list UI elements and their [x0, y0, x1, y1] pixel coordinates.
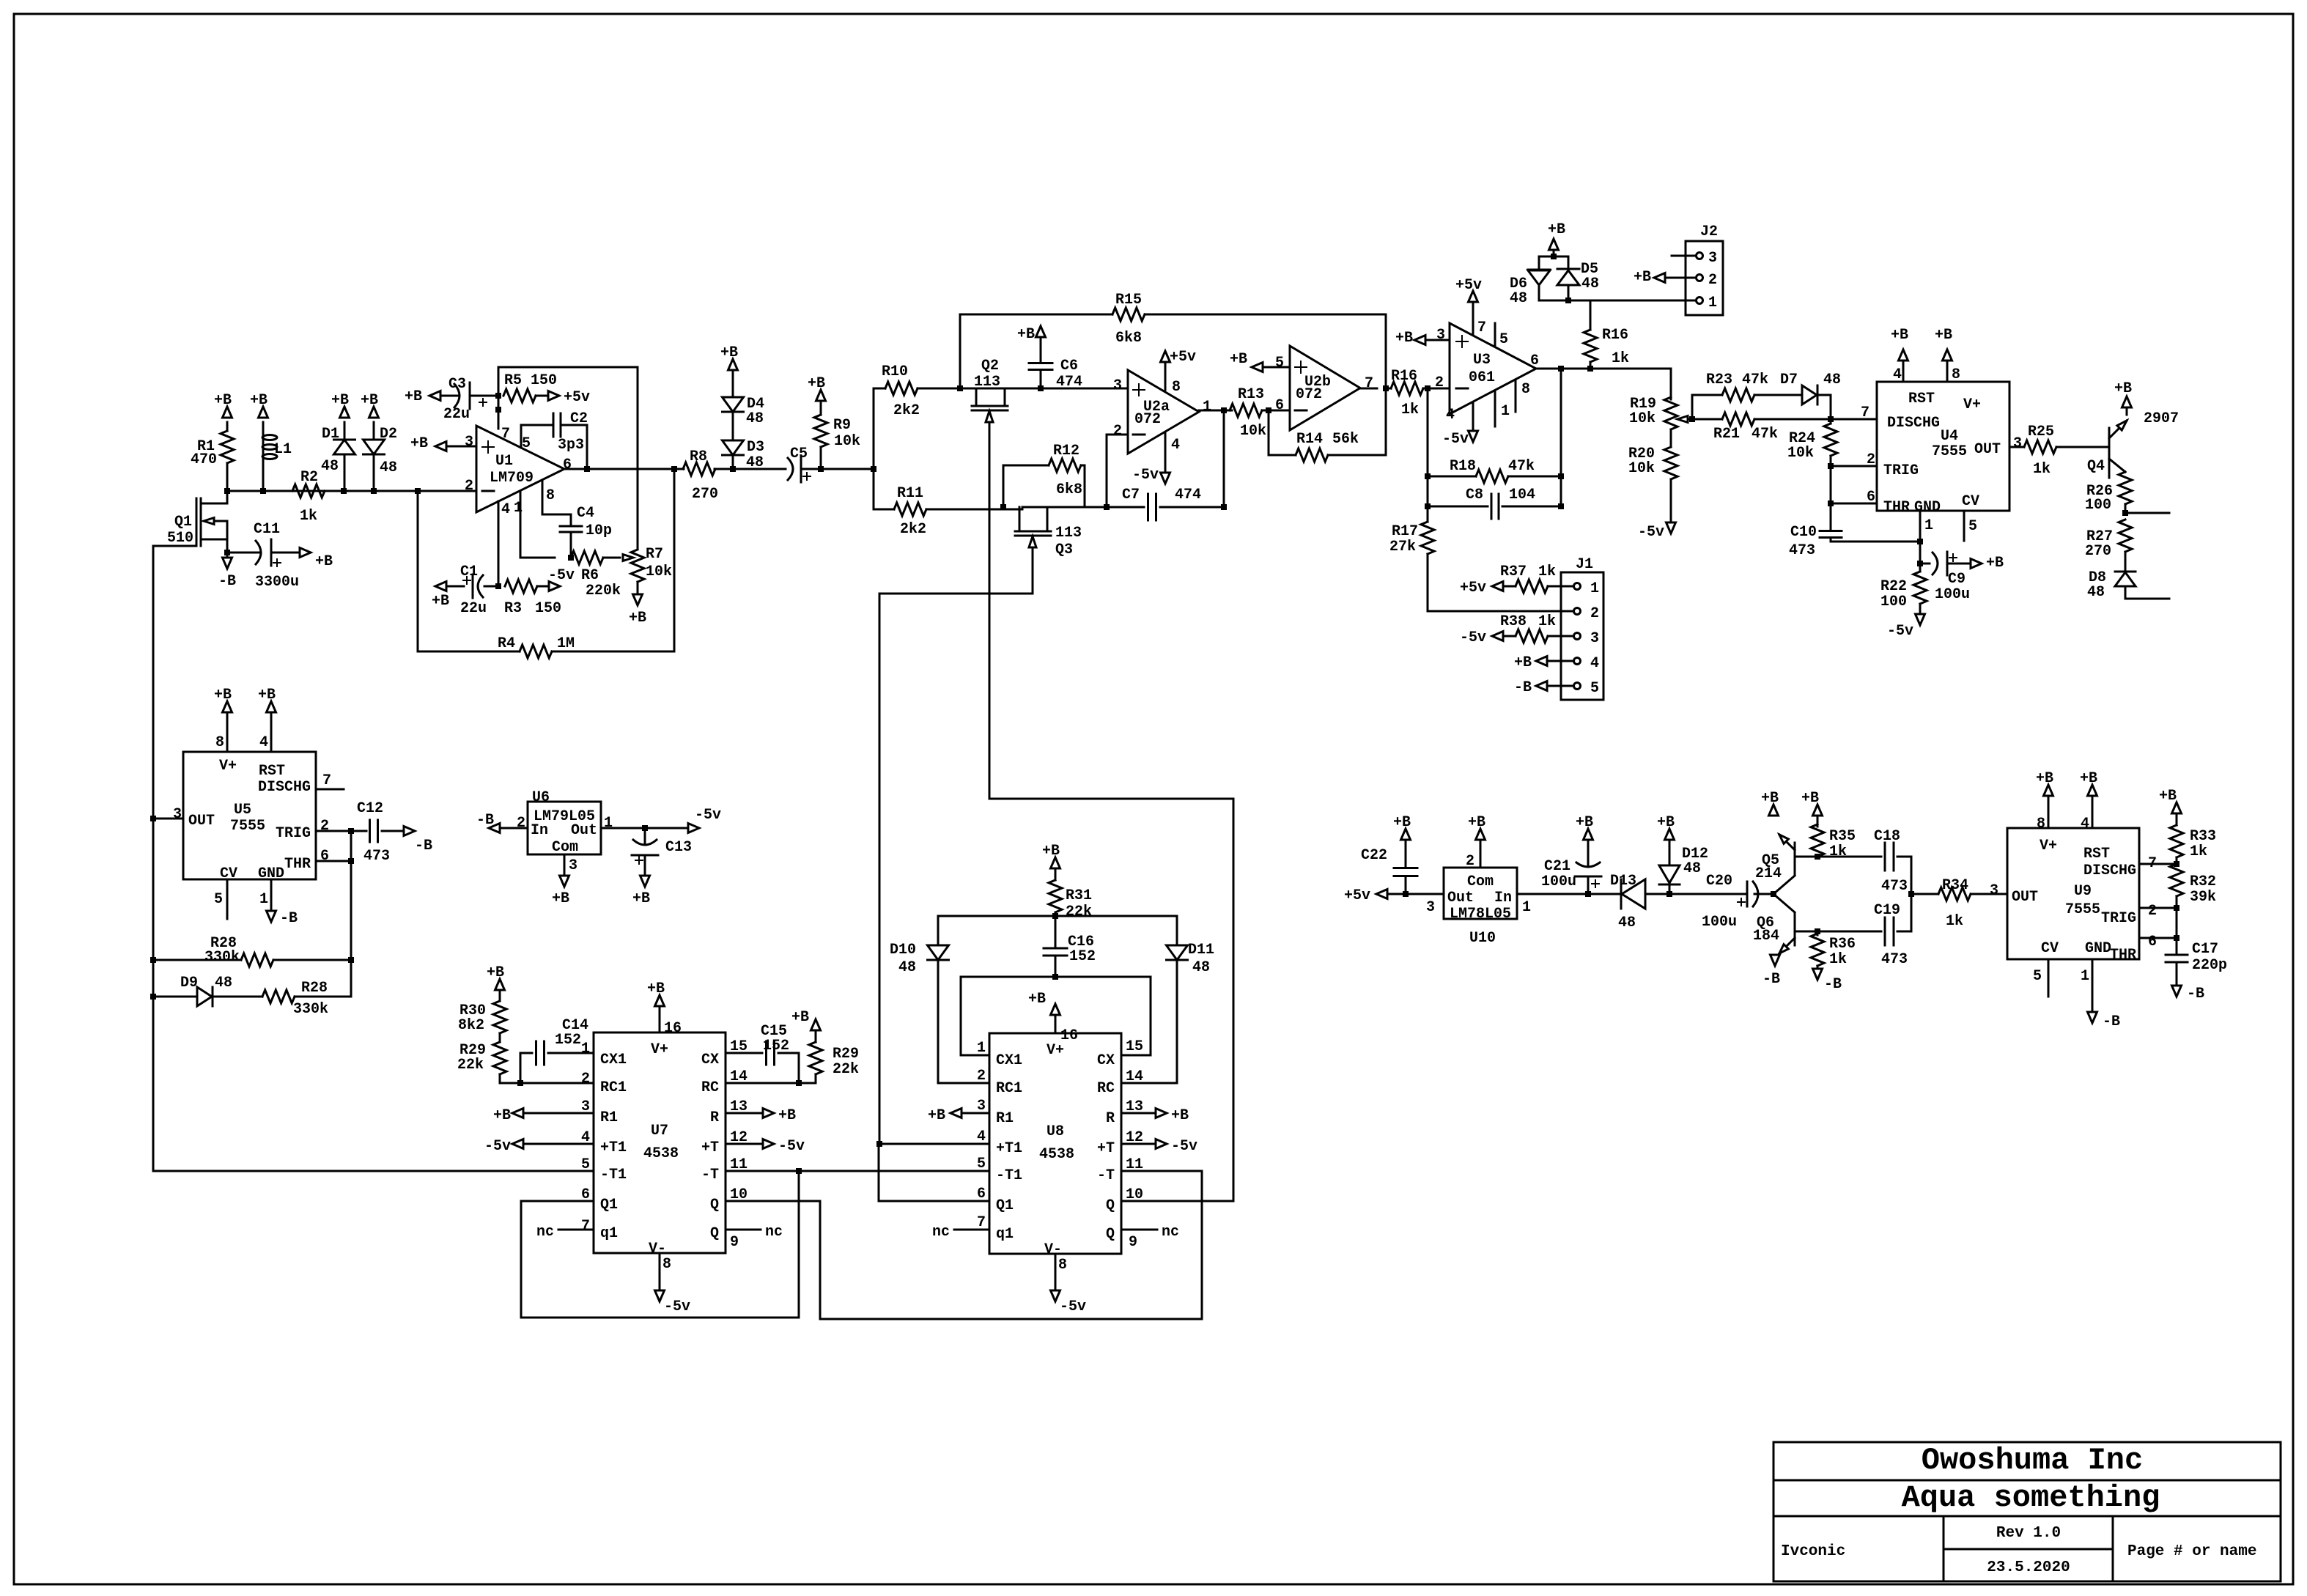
wire U9 pin2 TRIG [2139, 903, 2177, 920]
power +B U8 pin16 [1028, 991, 1078, 1044]
svg-text:474: 474 [1175, 487, 1201, 503]
wire Q3 route to U8 pin4 [879, 594, 1033, 1144]
IC U8 4538 [989, 1033, 1121, 1258]
svg-text:5: 5 [977, 1156, 986, 1172]
svg-text:Q: Q [1106, 1226, 1115, 1243]
node D12 junction [1666, 891, 1672, 897]
pin 3 stub J2 [1672, 255, 1695, 257]
resistor R1 [191, 422, 234, 491]
svg-text:-5v: -5v [778, 1138, 805, 1155]
svg-text:48: 48 [1618, 915, 1636, 931]
IC U7 4538 [594, 1032, 726, 1257]
wire U3 output [1530, 352, 1671, 372]
power +B above C22 [1393, 814, 1411, 864]
svg-text:1k: 1k [1829, 843, 1847, 860]
svg-text:R21: R21 [1713, 426, 1740, 443]
pin 5 label U2b [1275, 355, 1284, 372]
svg-text:48: 48 [746, 410, 764, 427]
power +5v U2a pin8 [1161, 349, 1197, 396]
capacitor C22 [1361, 847, 1417, 894]
power +B above C6 [1017, 326, 1046, 343]
svg-text:CV: CV [220, 865, 237, 882]
resistor R28 [153, 935, 351, 967]
svg-text:D3: D3 [747, 439, 764, 456]
svg-text:072: 072 [1134, 411, 1161, 428]
svg-text:+B: +B [1891, 327, 1908, 344]
svg-text:11: 11 [1126, 1156, 1143, 1173]
svg-text:Page # or name: Page # or name [2127, 1543, 2256, 1560]
svg-text:R12: R12 [1053, 443, 1079, 459]
title project name [1902, 1480, 2160, 1515]
svg-text:+B: +B [493, 1107, 511, 1124]
wire U5 pin6 THR [316, 848, 351, 865]
svg-text:16: 16 [1060, 1027, 1078, 1044]
wire THR row [1828, 466, 1877, 506]
power +B above D5-D6 [1548, 221, 1565, 256]
svg-text:-5v: -5v [1171, 1138, 1197, 1155]
svg-text:10k: 10k [1240, 423, 1266, 440]
svg-text:1k: 1k [300, 508, 317, 525]
resistor R38 [1500, 613, 1573, 643]
svg-text:13: 13 [730, 1098, 748, 1115]
op-amp U2b [1290, 346, 1360, 430]
svg-text:Owoshuma Inc: Owoshuma Inc [1922, 1443, 2143, 1478]
wire R14 feedback loop [1269, 388, 1386, 455]
power +B U4 pin8 [1935, 327, 1960, 383]
svg-text:R5 150: R5 150 [504, 372, 557, 389]
svg-text:D9: D9 [180, 975, 198, 991]
svg-text:8k2: 8k2 [458, 1017, 484, 1034]
resistor R31 [1049, 868, 1092, 920]
svg-text:C20: C20 [1706, 873, 1732, 890]
svg-text:nc: nc [1162, 1224, 1179, 1241]
wire U7 pin14 RC [726, 1068, 816, 1086]
svg-text:8: 8 [1952, 366, 1960, 383]
svg-text:+B: +B [1230, 351, 1247, 368]
wire R15 feedback loop [960, 314, 1386, 388]
pin 9 stub U7 nc [726, 1224, 783, 1251]
capacitor C6 [1029, 337, 1082, 391]
pin 2 label U3 [1435, 374, 1444, 391]
svg-text:R35: R35 [1829, 828, 1856, 845]
svg-text:3: 3 [1708, 250, 1717, 267]
svg-text:10k: 10k [1628, 460, 1655, 477]
svg-text:+B: +B [720, 344, 738, 361]
title author [1781, 1543, 1845, 1560]
transistor Q4 [2087, 410, 2179, 478]
svg-text:4538: 4538 [643, 1145, 679, 1162]
svg-text:In: In [531, 822, 548, 839]
svg-text:4: 4 [1446, 407, 1455, 424]
capacitor C11 [227, 521, 300, 591]
resistor R12 [1003, 443, 1085, 507]
title revision [1996, 1525, 2061, 1542]
svg-text:1: 1 [977, 1040, 986, 1057]
svg-text:8: 8 [1521, 381, 1530, 398]
power +5v left of R37 [1460, 580, 1503, 596]
svg-text:2: 2 [1708, 272, 1717, 289]
svg-text:7555: 7555 [2065, 901, 2100, 918]
svg-text:100u: 100u [1702, 914, 1737, 931]
svg-text:3: 3 [1990, 882, 1998, 899]
svg-text:-5v: -5v [484, 1138, 511, 1155]
power -B below C17 [2172, 986, 2205, 1002]
svg-text:1k: 1k [1946, 913, 1963, 930]
svg-text:6: 6 [2148, 934, 2157, 950]
svg-text:-T1: -T1 [600, 1167, 627, 1183]
power -B into J1 pin5 [1514, 679, 1573, 696]
diode D6 [1510, 256, 1550, 307]
svg-text:2: 2 [1435, 374, 1444, 391]
pin 7 stub U5 [316, 772, 344, 789]
svg-text:2: 2 [977, 1068, 986, 1085]
capacitor C4 [514, 480, 612, 558]
svg-text:6k8: 6k8 [1115, 330, 1142, 347]
svg-text:8: 8 [662, 1256, 671, 1273]
svg-text:6: 6 [320, 848, 329, 865]
node R19 wiper junction [1689, 416, 1695, 422]
svg-text:5: 5 [522, 435, 531, 452]
svg-text:7: 7 [1477, 319, 1486, 336]
diode D8 [2087, 569, 2169, 601]
wire Q2 route to U8 pin10 [989, 799, 1233, 1201]
resistor R5 [503, 372, 557, 402]
power -5v U2a pin4 [1132, 432, 1180, 484]
power +B into J1 pin4 [1514, 654, 1573, 671]
pin 8 stub U3 [1516, 380, 1530, 412]
capacitor C3 [440, 376, 498, 423]
svg-text:-B: -B [1514, 679, 1532, 696]
svg-text:R15: R15 [1115, 292, 1142, 309]
svg-text:113: 113 [1055, 525, 1082, 542]
svg-text:2: 2 [465, 478, 473, 495]
svg-text:-B: -B [476, 812, 494, 829]
power +B right of C11 [300, 548, 333, 571]
svg-text:23.5.2020: 23.5.2020 [1987, 1559, 2070, 1576]
svg-text:7555: 7555 [1932, 443, 1967, 460]
svg-text:R13: R13 [1238, 386, 1264, 403]
svg-text:184: 184 [1753, 928, 1779, 945]
wire U1 pin4 down [498, 501, 500, 586]
pin 1 stub U3 [1495, 391, 1510, 426]
power -5v U7 pin8 [655, 1253, 691, 1315]
svg-text:Q: Q [1106, 1197, 1115, 1214]
capacitor C8 [1428, 487, 1561, 519]
svg-text:Q4: Q4 [2087, 458, 2105, 475]
svg-text:C21: C21 [1544, 858, 1570, 875]
resistor R28 second [262, 960, 351, 1018]
svg-text:15: 15 [1126, 1038, 1143, 1055]
svg-text:U8: U8 [1047, 1123, 1064, 1140]
svg-text:10k: 10k [1629, 410, 1655, 427]
wire U3 output feedback rail [1558, 369, 1564, 509]
svg-text:3: 3 [1113, 377, 1122, 394]
svg-text:473: 473 [1789, 542, 1815, 559]
svg-text:J2: J2 [1700, 223, 1718, 240]
node C4-R6 junction [568, 555, 574, 561]
svg-text:4: 4 [259, 734, 268, 751]
svg-text:5: 5 [1968, 518, 1977, 535]
wire U5 pin3 OUT [153, 806, 183, 823]
svg-text:D1: D1 [322, 426, 339, 443]
title block [1773, 1442, 2281, 1581]
svg-text:CX: CX [701, 1052, 719, 1068]
svg-text:R11: R11 [897, 485, 923, 502]
power +B into U2b pin5 [1230, 351, 1290, 372]
svg-text:OUT: OUT [188, 813, 215, 830]
wire C5 node to R10/R11 rail [821, 388, 876, 509]
svg-text:3: 3 [1436, 327, 1445, 344]
svg-text:2: 2 [2148, 903, 2157, 920]
svg-text:2907: 2907 [2144, 410, 2179, 427]
node R36 junction [1815, 928, 1820, 934]
svg-text:R34: R34 [1942, 877, 1968, 894]
svg-text:R36: R36 [1829, 936, 1856, 953]
svg-text:-5v: -5v [548, 567, 575, 584]
resistor R3 [504, 580, 561, 617]
transistor Q6 [1753, 894, 1817, 953]
svg-text:V+: V+ [219, 758, 237, 775]
svg-text:14: 14 [730, 1068, 748, 1085]
IC U10 LM78L05 [1444, 868, 1517, 947]
svg-text:47k: 47k [1742, 372, 1768, 388]
svg-text:27k: 27k [1389, 539, 1416, 555]
svg-text:6: 6 [581, 1186, 590, 1203]
wire D5-D6 top [1539, 254, 1568, 259]
pin 4 label U1 [501, 501, 510, 518]
node D3 junction [730, 466, 736, 472]
svg-text:q1: q1 [600, 1225, 618, 1242]
svg-text:+T: +T [701, 1139, 719, 1156]
pin labels U8 right [1126, 1038, 1143, 1251]
svg-text:-B: -B [218, 573, 236, 590]
node R34 junction [1908, 891, 1914, 897]
power -5v U7 pin12 [726, 1129, 805, 1155]
wire J2 to R19 rail [1670, 369, 1672, 399]
svg-text:+B: +B [432, 593, 449, 610]
svg-text:-B: -B [1762, 971, 1780, 988]
svg-text:V+: V+ [1047, 1042, 1064, 1059]
svg-text:6: 6 [1530, 352, 1539, 369]
wire D5-D6 bottom to J2 [1539, 298, 1695, 303]
connector J1 [1561, 556, 1603, 700]
svg-text:Q: Q [710, 1197, 719, 1213]
power +B below C13 [632, 876, 650, 907]
resistor R22 [1880, 564, 1927, 614]
wire feedback box top [498, 367, 638, 548]
pin 3 label U2a [1113, 377, 1122, 394]
power +B above R1 [214, 392, 232, 418]
power +B U6 pin3 [552, 854, 577, 907]
power +B above D1 [331, 392, 350, 418]
power +B into U7 pin3 [493, 1098, 594, 1124]
svg-text:+B: +B [778, 1107, 796, 1124]
power +5v right of R5 [548, 389, 590, 406]
svg-text:U7: U7 [651, 1123, 668, 1139]
svg-text:072: 072 [1296, 386, 1322, 403]
capacitor C21 [1541, 851, 1601, 894]
svg-text:+B: +B [808, 375, 825, 392]
svg-text:Out: Out [1447, 890, 1474, 906]
pin 2 label U1 [465, 478, 473, 495]
svg-text:330k: 330k [204, 949, 240, 966]
resistor R20 [1628, 429, 1677, 522]
svg-text:4538: 4538 [1039, 1146, 1074, 1163]
svg-text:DISCHG: DISCHG [1887, 415, 1940, 432]
svg-text:1: 1 [1522, 899, 1531, 916]
pin 7 label U2b [1365, 375, 1373, 392]
svg-text:+B: +B [2114, 380, 2132, 397]
svg-text:1k: 1k [1612, 350, 1629, 367]
power +B U7 pin16 [647, 980, 682, 1037]
svg-text:+B: +B [647, 980, 665, 997]
svg-text:R29: R29 [833, 1046, 859, 1063]
IC U4 7555 [1877, 382, 2009, 516]
svg-text:-5v: -5v [1887, 623, 1913, 640]
wire U2a pin2 to C7 row [1107, 435, 1128, 507]
svg-text:7: 7 [1365, 375, 1373, 392]
diode D12 [1659, 840, 1708, 894]
svg-text:TRIG: TRIG [2101, 910, 2136, 927]
svg-text:RC1: RC1 [600, 1079, 627, 1096]
resistor R4 [498, 635, 575, 658]
svg-text:CX1: CX1 [600, 1052, 627, 1068]
diode D9 [153, 975, 262, 1006]
wire U2b output [1360, 385, 1389, 391]
svg-text:R1: R1 [600, 1109, 618, 1126]
svg-text:In: In [1494, 890, 1512, 906]
resistor R29 second [809, 1030, 859, 1083]
resistor R25 [2009, 424, 2109, 478]
svg-text:1k: 1k [1538, 564, 1556, 580]
svg-text:Q1: Q1 [600, 1197, 618, 1213]
resistor R9 [814, 401, 860, 469]
pin labels U8 left [977, 1040, 986, 1231]
svg-text:+B: +B [405, 388, 422, 405]
resistor R34 [1911, 877, 2007, 930]
svg-text:RST: RST [2083, 846, 2110, 862]
svg-text:RC: RC [1097, 1080, 1115, 1097]
svg-text:R1: R1 [996, 1110, 1014, 1127]
svg-text:270: 270 [2085, 543, 2111, 560]
resistor R14 [1296, 431, 1359, 462]
svg-text:1: 1 [2081, 968, 2089, 985]
pin 1 label U2a [1203, 399, 1211, 415]
svg-text:4: 4 [1171, 437, 1180, 454]
power +B U9 pin4 [2080, 770, 2097, 832]
wire R32 to THR [2174, 908, 2179, 941]
node C6 junction [1038, 385, 1044, 391]
svg-text:DISCHG: DISCHG [2083, 862, 2136, 879]
svg-text:5: 5 [581, 1156, 590, 1173]
resistor R11 [874, 485, 1022, 538]
svg-text:+T1: +T1 [600, 1139, 627, 1156]
svg-text:+5v: +5v [1344, 887, 1370, 904]
svg-text:R32: R32 [2190, 873, 2216, 890]
svg-text:22u: 22u [460, 600, 487, 617]
op-amp U3 [1450, 323, 1536, 414]
svg-text:L1: L1 [274, 441, 292, 458]
resistor R35 [1811, 816, 1856, 860]
resistor R26 [2085, 472, 2132, 514]
power +B left of C1 [432, 582, 449, 610]
diode D11 [1122, 916, 1214, 1083]
svg-text:C5: C5 [790, 446, 808, 462]
power +B U10 pin2 [1466, 814, 1485, 870]
svg-text:1k: 1k [1401, 402, 1419, 418]
power -B below Q6 [1762, 955, 1780, 988]
transistor Q1 [167, 491, 227, 553]
svg-text:R28: R28 [301, 980, 328, 997]
wire U8 pin6 Q1 loop [879, 1144, 989, 1201]
svg-text:D10: D10 [890, 942, 916, 958]
svg-text:22k: 22k [1066, 904, 1092, 920]
svg-text:12: 12 [730, 1129, 748, 1146]
svg-text:-5v: -5v [695, 807, 721, 824]
svg-text:1M: 1M [557, 635, 575, 652]
svg-text:D11: D11 [1188, 942, 1214, 958]
node R35 junction [1815, 854, 1820, 860]
power +5v U3 pin7 [1455, 277, 1486, 336]
wire R29 to U7 pin2 [500, 1071, 594, 1087]
wire U10 out row [1387, 891, 1444, 916]
svg-text:R: R [710, 1109, 719, 1126]
wire Q1 gate to left rail [153, 545, 196, 547]
svg-text:47k: 47k [1752, 426, 1778, 443]
svg-text:DISCHG: DISCHG [258, 779, 311, 796]
svg-text:+B: +B [2080, 770, 2097, 787]
node junction dots input row [224, 488, 421, 494]
svg-text:48: 48 [380, 459, 397, 476]
capacitor C19 [1817, 894, 1911, 968]
svg-text:-B: -B [280, 910, 298, 927]
capacitor C17 [2166, 938, 2227, 986]
svg-text:C12: C12 [357, 800, 383, 817]
svg-text:C1: C1 [460, 564, 478, 580]
potentiometer R19 [1629, 396, 1692, 429]
svg-text:Out: Out [571, 822, 597, 839]
svg-text:U10: U10 [1469, 930, 1496, 947]
svg-text:+B: +B [2036, 770, 2053, 787]
svg-text:q1: q1 [996, 1226, 1014, 1243]
resistor R17 [1389, 522, 1434, 611]
power +B above C21 [1576, 814, 1593, 851]
svg-text:R18: R18 [1450, 458, 1476, 475]
svg-text:152: 152 [1069, 948, 1096, 965]
svg-text:GND: GND [2085, 940, 2111, 957]
svg-text:RC1: RC1 [996, 1080, 1022, 1097]
svg-text:48: 48 [321, 458, 339, 475]
power +B U5 pin8 [214, 687, 232, 752]
svg-text:48: 48 [1510, 290, 1527, 307]
svg-text:+B: +B [1171, 1107, 1189, 1124]
wire U6 pin1 out [601, 815, 689, 832]
svg-text:-5v: -5v [1060, 1298, 1086, 1315]
svg-text:152: 152 [763, 1038, 789, 1054]
svg-text:R3: R3 [504, 600, 522, 617]
svg-text:+B: +B [629, 610, 646, 627]
svg-text:CX1: CX1 [996, 1052, 1022, 1069]
node C7 row junctions [1000, 504, 1227, 510]
node R33 junction [2174, 861, 2179, 867]
svg-text:16: 16 [664, 1020, 682, 1037]
node R32 junction [2174, 905, 2179, 911]
wire main input row [227, 490, 476, 492]
svg-text:7: 7 [322, 772, 331, 789]
svg-text:1k: 1k [1538, 613, 1556, 630]
power -5v U3 pin4 [1442, 402, 1478, 448]
svg-text:RST: RST [1908, 391, 1935, 407]
